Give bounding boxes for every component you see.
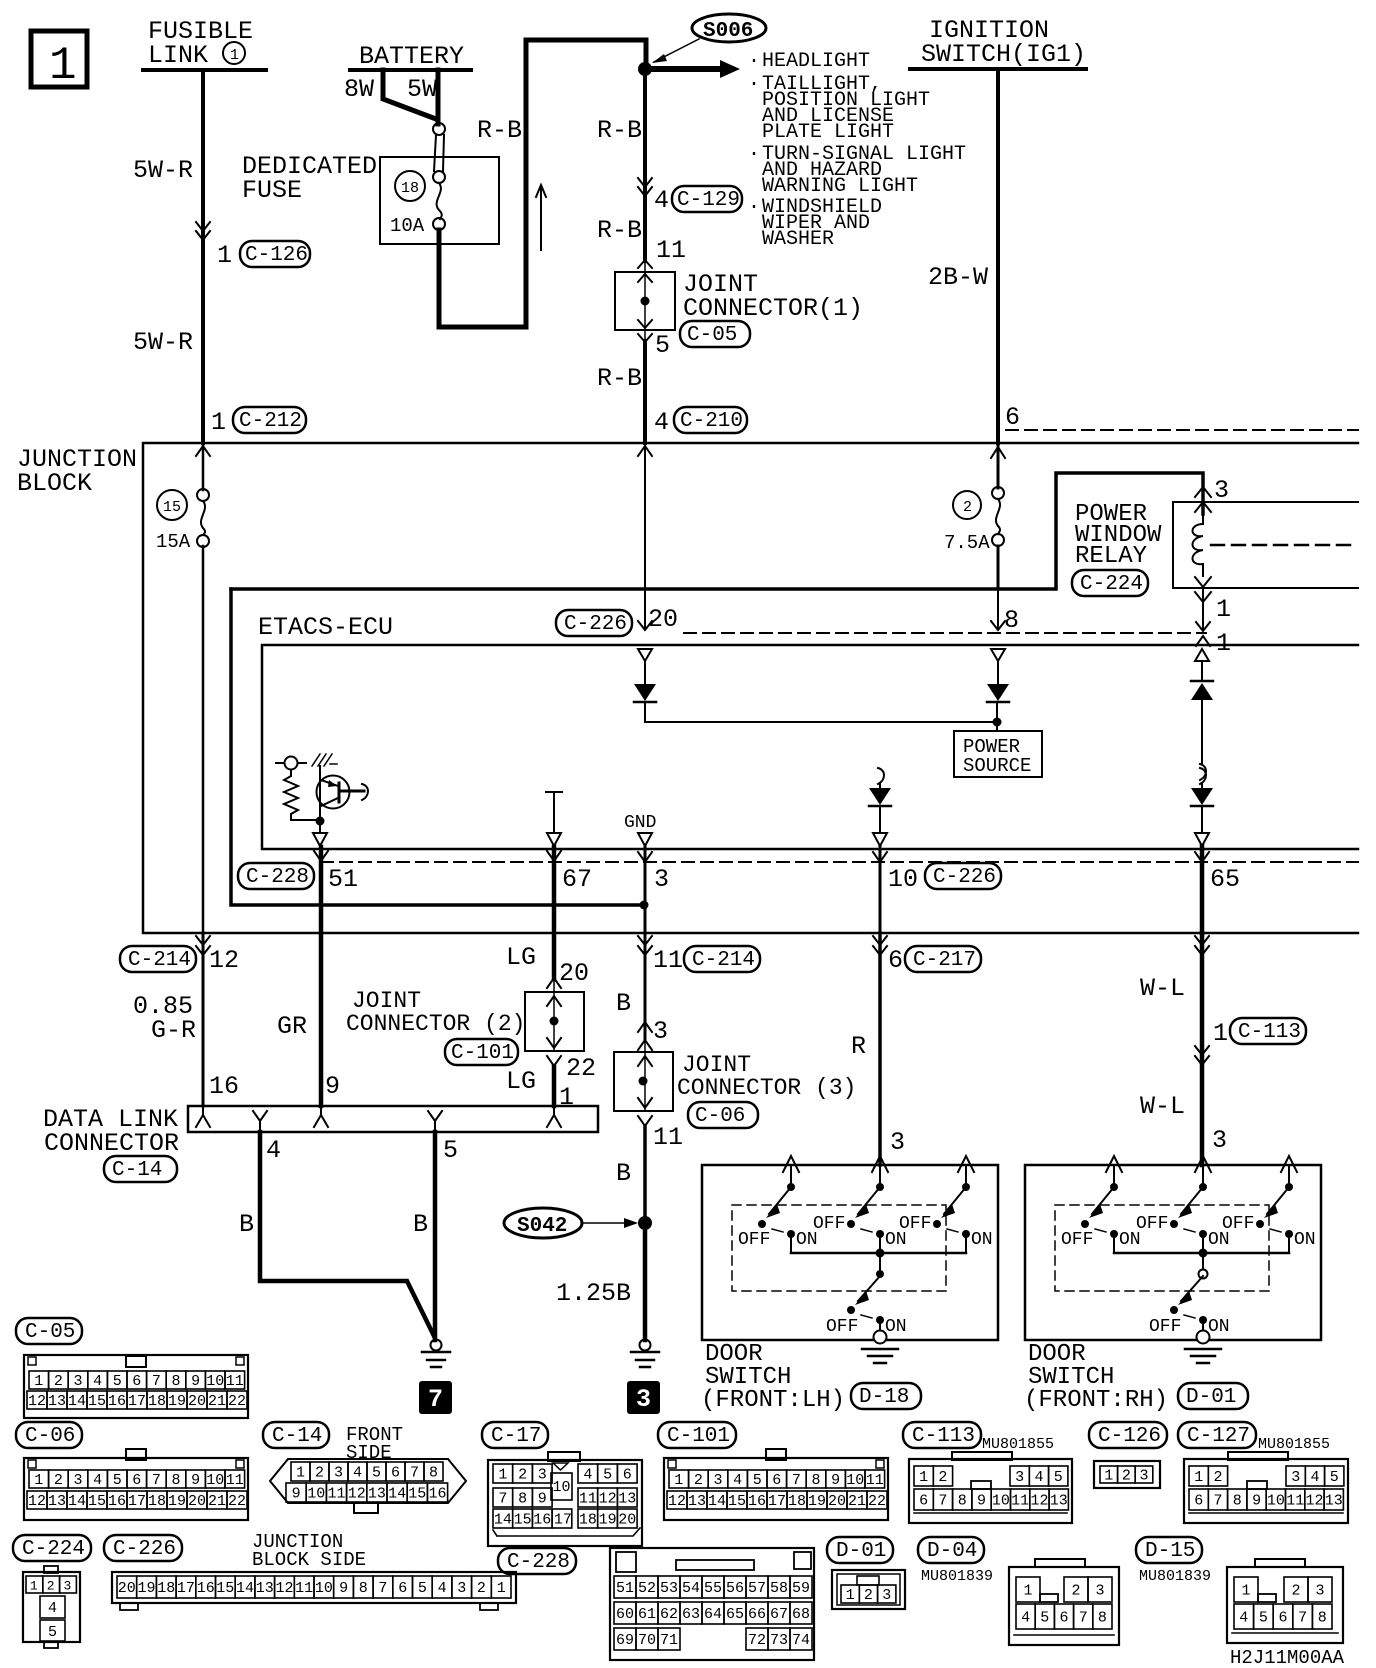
- S006 pointer arrow: [652, 39, 699, 63]
- svg-text:15: 15: [728, 1493, 746, 1510]
- pin 1 connector C-113: [1213, 1018, 1306, 1048]
- svg-text:C-05: C-05: [25, 1321, 75, 1344]
- node S006 junction dot: [638, 62, 652, 76]
- svg-text:1: 1: [49, 40, 77, 92]
- svg-text:1: 1: [846, 1587, 855, 1604]
- svg-text:C-101: C-101: [667, 1425, 730, 1448]
- pin 51 chevron and label: [314, 851, 328, 861]
- svg-text:7: 7: [498, 1491, 507, 1508]
- svg-text:1: 1: [1213, 1019, 1228, 1048]
- door switch LH contact set 1: [738, 1156, 818, 1253]
- label 0.85 G-R: [133, 992, 196, 1045]
- svg-text:11: 11: [1286, 1493, 1304, 1510]
- svg-text:C-17: C-17: [491, 1425, 541, 1448]
- svg-text:CONNECTOR (2): CONNECTOR (2): [346, 1011, 525, 1037]
- door switch RH contact set 2: [1136, 1156, 1230, 1253]
- pin 1 connector C-126: [217, 241, 310, 270]
- svg-text:2: 2: [315, 1465, 324, 1482]
- connector C-101 pinout: [664, 1449, 888, 1520]
- svg-text:20: 20: [828, 1493, 846, 1510]
- svg-text:57: 57: [748, 1580, 766, 1597]
- page number box 1: [31, 31, 87, 92]
- svg-text:4: 4: [583, 1467, 592, 1484]
- svg-text:WASHER: WASHER: [762, 228, 834, 251]
- svg-text:2: 2: [1122, 1468, 1131, 1485]
- fusible link bus bar: [143, 68, 266, 72]
- wire R-B from S006 down: [643, 69, 647, 261]
- pin 12 connector C-214: [120, 946, 239, 975]
- door switch RH common bus: [1114, 1252, 1289, 1255]
- svg-text:8: 8: [172, 1373, 181, 1390]
- svg-text:14: 14: [708, 1493, 726, 1510]
- wire B from DLC pin 5: [433, 1132, 438, 1340]
- ground code box 7: [419, 1381, 452, 1414]
- connector C-05 pinout: [24, 1355, 248, 1418]
- svg-text:13: 13: [688, 1493, 706, 1510]
- pin 65 chevron and label: [1195, 852, 1209, 862]
- thick feed arrow to loads: [650, 60, 740, 78]
- svg-text:3: 3: [1291, 1469, 1300, 1486]
- door switch RH dashed detent box: [1055, 1205, 1269, 1291]
- svg-text:6: 6: [919, 1493, 928, 1510]
- svg-text:C-14: C-14: [272, 1425, 322, 1448]
- svg-text:C-224: C-224: [22, 1538, 85, 1561]
- svg-text:W-L: W-L: [1140, 1092, 1185, 1121]
- svg-text:4: 4: [438, 1580, 447, 1597]
- svg-text:7: 7: [152, 1373, 161, 1390]
- svg-text:5: 5: [753, 1472, 762, 1489]
- chevron ignition wire at junction top: [991, 447, 1005, 458]
- svg-text:6: 6: [398, 1580, 407, 1597]
- svg-text:5: 5: [655, 331, 670, 360]
- ETACS pin 67 stub: [546, 792, 562, 846]
- double chevron below junction x880: [873, 936, 887, 955]
- svg-text:LG: LG: [506, 943, 536, 972]
- svg-text:C-214: C-214: [128, 949, 191, 972]
- svg-text:12: 12: [1031, 1493, 1049, 1510]
- svg-text:5: 5: [603, 1467, 612, 1484]
- svg-text:2: 2: [1214, 1469, 1223, 1486]
- svg-text:11: 11: [579, 1491, 597, 1508]
- svg-text:C-127: C-127: [1187, 1425, 1250, 1448]
- pin 3 chevron and label: [638, 852, 652, 862]
- svg-text:R-B: R-B: [477, 116, 522, 145]
- svg-text:3: 3: [653, 1017, 668, 1046]
- svg-text:OFF: OFF: [738, 1230, 770, 1250]
- connector C-228 oval: [238, 863, 314, 889]
- svg-text:C-06: C-06: [25, 1425, 75, 1448]
- svg-text:5W-R: 5W-R: [133, 328, 193, 357]
- svg-text:1: 1: [211, 408, 226, 437]
- svg-text:3: 3: [1212, 1126, 1227, 1155]
- svg-text:6: 6: [623, 1467, 632, 1484]
- svg-text:9: 9: [831, 1472, 840, 1489]
- svg-text:6: 6: [391, 1465, 400, 1482]
- svg-text:51: 51: [616, 1580, 634, 1597]
- svg-text:3: 3: [74, 1373, 83, 1390]
- svg-text:3: 3: [636, 1385, 651, 1414]
- svg-text:R: R: [851, 1032, 866, 1061]
- svg-text:C-129: C-129: [677, 189, 740, 212]
- svg-text:17: 17: [177, 1580, 195, 1597]
- svg-text:8: 8: [1004, 606, 1019, 635]
- svg-text:15: 15: [88, 1393, 106, 1410]
- svg-text:R-B: R-B: [597, 364, 642, 393]
- node dot power source: [993, 718, 1002, 727]
- svg-text:61: 61: [638, 1606, 656, 1623]
- svg-text:5: 5: [443, 1136, 458, 1165]
- double chevron on 5W-R wire: [196, 222, 210, 240]
- svg-text:OFF: OFF: [899, 1214, 931, 1234]
- svg-text:7.5A: 7.5A: [944, 532, 990, 554]
- resistor R1: [284, 770, 317, 820]
- svg-text:8: 8: [1318, 1610, 1327, 1627]
- svg-text:2: 2: [1072, 1583, 1081, 1600]
- svg-text:1: 1: [1194, 1469, 1203, 1486]
- svg-text:6: 6: [132, 1472, 141, 1489]
- connector C-224 pinout: [23, 1566, 80, 1648]
- pin 4 connector C-210: [654, 407, 747, 437]
- sensor circle with dashes: [276, 757, 306, 770]
- svg-text:10: 10: [846, 1472, 864, 1489]
- svg-text:12: 12: [28, 1393, 46, 1410]
- svg-text:C-126: C-126: [245, 244, 308, 267]
- svg-text:G-R: G-R: [151, 1016, 196, 1045]
- svg-text:7: 7: [410, 1465, 419, 1482]
- connector D-15 label: [1136, 1537, 1202, 1563]
- svg-text:3: 3: [457, 1580, 466, 1597]
- connector C-226 oval: [556, 610, 632, 636]
- wire node to power source box: [996, 703, 998, 731]
- svg-text:LG: LG: [506, 1067, 536, 1096]
- DLC pin 1 fork: [547, 1108, 561, 1127]
- svg-text:FUSE: FUSE: [242, 176, 302, 205]
- svg-text:18: 18: [401, 180, 419, 197]
- svg-text:2: 2: [47, 1579, 55, 1594]
- diode D4 down x880: [869, 768, 891, 833]
- svg-text:OFF: OFF: [1149, 1317, 1181, 1337]
- pin 6 connector C-217: [888, 946, 981, 975]
- svg-text:8: 8: [359, 1580, 368, 1597]
- svg-text:SWITCH(IG1): SWITCH(IG1): [921, 40, 1086, 69]
- svg-text:16: 16: [197, 1580, 215, 1597]
- svg-text:1: 1: [1104, 1468, 1113, 1485]
- connector C-17 pinout: [488, 1452, 642, 1546]
- svg-text:8: 8: [958, 1493, 967, 1510]
- svg-text:51: 51: [328, 865, 358, 894]
- svg-text:6: 6: [1060, 1610, 1069, 1627]
- svg-text:2: 2: [938, 1469, 947, 1486]
- svg-text:3: 3: [1316, 1583, 1325, 1600]
- battery bus bar: [350, 68, 471, 72]
- connector C-226 label: [104, 1535, 182, 1561]
- svg-text:17: 17: [128, 1493, 146, 1510]
- svg-text:16: 16: [108, 1493, 126, 1510]
- svg-text:3: 3: [890, 1128, 905, 1157]
- svg-text:10: 10: [1267, 1493, 1285, 1510]
- chevron above JC3: [638, 1022, 652, 1032]
- power source box: [954, 731, 1042, 777]
- svg-text:·: ·: [748, 196, 760, 219]
- svg-text:12: 12: [1306, 1493, 1324, 1510]
- svg-text:3: 3: [1096, 1583, 1105, 1600]
- svg-text:63: 63: [682, 1606, 700, 1623]
- svg-text:3: 3: [714, 1472, 723, 1489]
- svg-text:10: 10: [992, 1493, 1010, 1510]
- svg-text:5: 5: [1330, 1469, 1339, 1486]
- svg-text:17: 17: [554, 1512, 572, 1529]
- svg-text:20: 20: [188, 1393, 206, 1410]
- wire 5W-R inside junction block: [202, 443, 205, 933]
- svg-text:LINK: LINK: [148, 41, 208, 70]
- svg-text:C-113: C-113: [1238, 1021, 1301, 1044]
- wire R-B to pin 20 with arrow: [638, 443, 652, 630]
- svg-text:14: 14: [68, 1493, 86, 1510]
- continuation marks above transistor: [312, 754, 337, 766]
- svg-text:MU801839: MU801839: [1139, 1568, 1211, 1585]
- svg-text:HEADLIGHT: HEADLIGHT: [762, 50, 870, 73]
- svg-text:10: 10: [307, 1486, 325, 1503]
- arrow pin1 at C-226 line: [1196, 622, 1210, 631]
- svg-text:C-226: C-226: [933, 866, 996, 889]
- svg-text:10: 10: [206, 1373, 224, 1390]
- svg-text:71: 71: [660, 1632, 678, 1649]
- door switch RH label: [1024, 1341, 1248, 1414]
- svg-text:21: 21: [208, 1493, 226, 1510]
- svg-text:11: 11: [328, 1486, 346, 1503]
- svg-text:2: 2: [518, 1467, 527, 1484]
- svg-text:10: 10: [206, 1472, 224, 1489]
- svg-text:1: 1: [30, 1579, 38, 1594]
- ETACS pin triangle down x1202 lower: [1195, 833, 1209, 846]
- wire R to door switch LH: [878, 933, 882, 1165]
- svg-text:8: 8: [1233, 1493, 1242, 1510]
- svg-text:10: 10: [315, 1580, 333, 1597]
- svg-text:59: 59: [792, 1580, 810, 1597]
- svg-text:65: 65: [1210, 865, 1240, 894]
- svg-text:3: 3: [538, 1467, 547, 1484]
- svg-text:B: B: [239, 1210, 254, 1239]
- svg-text:64: 64: [704, 1606, 722, 1623]
- fusible link label: [148, 17, 253, 70]
- svg-text:4: 4: [93, 1472, 102, 1489]
- svg-text:56: 56: [726, 1580, 744, 1597]
- wire 5W-R fusible link to junction block: [201, 70, 205, 443]
- svg-text:6: 6: [1279, 1610, 1288, 1627]
- svg-text:1: 1: [230, 47, 239, 64]
- svg-text:69: 69: [616, 1632, 634, 1649]
- pin 10 chevron and label C-226: [873, 852, 1001, 894]
- connector C-226 pinout: [112, 1572, 516, 1610]
- svg-text:12: 12: [668, 1493, 686, 1510]
- connector D-04 label: [918, 1537, 984, 1563]
- svg-text:7: 7: [1079, 1610, 1088, 1627]
- svg-text:20: 20: [559, 959, 589, 988]
- joint connector 1 box C-05: [615, 272, 675, 330]
- svg-text:4: 4: [1035, 1469, 1044, 1486]
- svg-text:B: B: [616, 1159, 631, 1188]
- svg-text:52: 52: [638, 1580, 656, 1597]
- door switch RH contact set 3: [1222, 1156, 1316, 1253]
- svg-text:C-226: C-226: [564, 613, 627, 636]
- svg-text:S006: S006: [703, 20, 753, 43]
- wire 2B-W ignition to junction block: [996, 69, 1000, 443]
- svg-text:11: 11: [866, 1472, 884, 1489]
- dashed connector line C-228: [321, 861, 1358, 863]
- svg-text:5: 5: [372, 1465, 381, 1482]
- svg-text:5: 5: [48, 1624, 57, 1641]
- chevron pin1 into ETACS: [1196, 636, 1210, 646]
- svg-text:·: ·: [748, 73, 760, 96]
- connector C-224 label: [13, 1535, 91, 1561]
- connector D-01 label: [827, 1537, 893, 1563]
- door switch LH ground: [862, 1331, 898, 1364]
- svg-text:2: 2: [54, 1373, 63, 1390]
- svg-text:9: 9: [191, 1472, 200, 1489]
- svg-text:16: 16: [533, 1512, 551, 1529]
- svg-text:9: 9: [538, 1491, 547, 1508]
- connector C-127 label: [1178, 1422, 1256, 1448]
- svg-text:14: 14: [236, 1580, 254, 1597]
- svg-text:1: 1: [217, 241, 232, 270]
- svg-text:12: 12: [599, 1491, 617, 1508]
- svg-text:6: 6: [772, 1472, 781, 1489]
- svg-text:67: 67: [562, 865, 592, 894]
- svg-text:ON: ON: [1294, 1230, 1316, 1250]
- svg-text:22: 22: [228, 1393, 246, 1410]
- svg-text:GND: GND: [624, 813, 656, 833]
- svg-text:2: 2: [963, 499, 972, 516]
- wire G-R to data link connector: [202, 933, 205, 1106]
- svg-text:6: 6: [1005, 403, 1020, 432]
- svg-text:13: 13: [48, 1493, 66, 1510]
- svg-text:9: 9: [292, 1486, 301, 1503]
- relay pin 1 chevrons: [1195, 577, 1211, 602]
- svg-text:54: 54: [682, 1580, 700, 1597]
- svg-text:1: 1: [34, 1472, 43, 1489]
- svg-text:21: 21: [848, 1493, 866, 1510]
- svg-text:C-212: C-212: [239, 410, 302, 433]
- svg-text:OFF: OFF: [826, 1317, 858, 1337]
- connector D-04 pinout: [1009, 1559, 1119, 1645]
- junction node dot x645: [640, 901, 649, 910]
- svg-text:8: 8: [518, 1491, 527, 1508]
- pin 11 connector C-214: [653, 946, 760, 975]
- svg-text:4: 4: [353, 1465, 362, 1482]
- svg-text:9: 9: [339, 1580, 348, 1597]
- joint connector 1 label: [680, 270, 863, 347]
- svg-text:1: 1: [34, 1373, 43, 1390]
- svg-text:PLATE LIGHT: PLATE LIGHT: [762, 121, 894, 144]
- svg-text:1: 1: [919, 1469, 928, 1486]
- svg-text:18: 18: [157, 1580, 175, 1597]
- svg-text:(FRONT:LH): (FRONT:LH): [701, 1387, 845, 1414]
- DLC pin 5 fork: [428, 1111, 442, 1132]
- connector C-127 pinout: [1184, 1452, 1348, 1523]
- svg-text:5: 5: [418, 1580, 427, 1597]
- wire fuse2 to pin 8 with arrow: [991, 589, 1005, 630]
- door switch RH lower contact: [1149, 1253, 1230, 1337]
- svg-text:13: 13: [1050, 1493, 1068, 1510]
- svg-text:R-B: R-B: [597, 116, 642, 145]
- svg-text:72: 72: [748, 1632, 766, 1649]
- svg-text:1: 1: [674, 1472, 683, 1489]
- connector C-113 pinout: [909, 1452, 1072, 1523]
- svg-text:4: 4: [266, 1136, 281, 1165]
- svg-text:ON: ON: [1208, 1317, 1230, 1337]
- svg-text:12: 12: [28, 1493, 46, 1510]
- svg-text:70: 70: [638, 1632, 656, 1649]
- svg-text:C-05: C-05: [687, 324, 737, 347]
- door switch LH box: [702, 1165, 998, 1340]
- pin 67 chevron and label: [547, 851, 561, 861]
- connector D-01 pinout: [832, 1570, 905, 1609]
- svg-text:1: 1: [559, 1083, 574, 1112]
- svg-text:C-101: C-101: [451, 1042, 514, 1065]
- svg-text:CONNECTOR(1): CONNECTOR(1): [683, 294, 863, 323]
- relay coil dashed actuation line: [1211, 544, 1358, 547]
- svg-text:12: 12: [276, 1580, 294, 1597]
- svg-text:8W: 8W: [344, 75, 374, 104]
- ETACS pin triangle down x880: [873, 833, 887, 846]
- svg-text:W-L: W-L: [1140, 974, 1185, 1003]
- svg-text:C-228: C-228: [246, 866, 309, 889]
- transistor Q1: [317, 766, 369, 816]
- svg-text:GR: GR: [277, 1012, 307, 1041]
- svg-text:22: 22: [868, 1493, 886, 1510]
- svg-text:2: 2: [1292, 1583, 1301, 1600]
- joint connector 1 chevrons: [638, 260, 652, 282]
- svg-text:C-14: C-14: [112, 1159, 162, 1182]
- svg-text:1: 1: [498, 1467, 507, 1484]
- svg-text:65: 65: [726, 1606, 744, 1623]
- svg-text:73: 73: [770, 1632, 788, 1649]
- double chevron below junction x1202: [1195, 936, 1209, 955]
- svg-text:8: 8: [429, 1465, 438, 1482]
- wire JC2 to DLC: [552, 1066, 557, 1106]
- diode D1 down: [634, 661, 656, 702]
- power window relay label: [1072, 501, 1162, 596]
- wire from fuse to S006 node: [439, 40, 646, 327]
- load list bullet text: [748, 50, 966, 251]
- dashed connector line C-226: [684, 632, 1206, 634]
- svg-text:C-126: C-126: [1098, 1425, 1161, 1448]
- svg-text:19: 19: [168, 1493, 186, 1510]
- svg-text:3: 3: [654, 865, 669, 894]
- svg-text:2: 2: [694, 1472, 703, 1489]
- svg-text:8: 8: [812, 1472, 821, 1489]
- svg-text:1: 1: [1242, 1583, 1251, 1600]
- door switch RH contact set 1: [1061, 1156, 1141, 1253]
- svg-text:21: 21: [208, 1393, 226, 1410]
- fusible link element circles: [433, 123, 445, 135]
- svg-text:11: 11: [295, 1580, 313, 1597]
- svg-text:D-04: D-04: [927, 1540, 977, 1563]
- svg-text:13: 13: [1325, 1493, 1343, 1510]
- wire fuse2 to power window relay coil: [231, 473, 1203, 589]
- door switch LH dashed detent box: [732, 1205, 946, 1291]
- svg-text:11: 11: [1011, 1493, 1029, 1510]
- svg-text:16: 16: [429, 1486, 447, 1503]
- svg-text:5: 5: [1054, 1469, 1063, 1486]
- data link connector box: [188, 1106, 598, 1132]
- ETACS pin triangle up x1202: [1195, 649, 1209, 661]
- connector C-17 label: [482, 1422, 548, 1448]
- ground G1: [631, 1340, 659, 1368]
- wire B to joint connector 3: [644, 933, 647, 1040]
- wire JC3 to S042: [643, 1126, 647, 1223]
- svg-text:7: 7: [378, 1580, 387, 1597]
